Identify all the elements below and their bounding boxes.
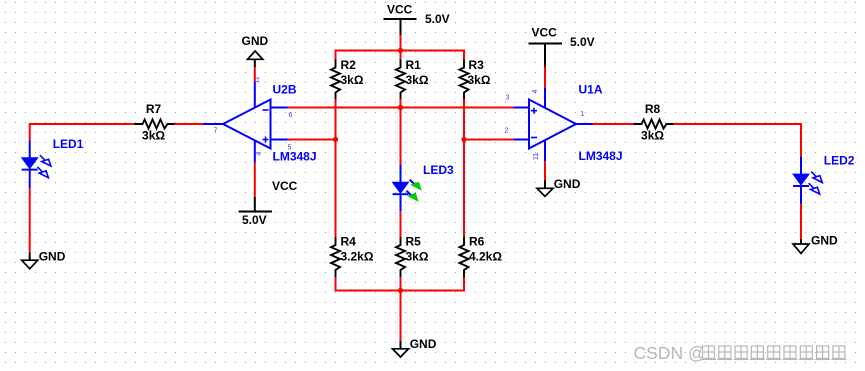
svg-text:R5: R5: [406, 235, 422, 249]
svg-text:3kΩ: 3kΩ: [142, 128, 165, 142]
svg-text:3kΩ: 3kΩ: [341, 73, 364, 87]
svg-text:GND: GND: [39, 249, 66, 263]
ground below U1A: [537, 177, 581, 197]
resistor R1 3k: [396, 58, 429, 100]
watermark CSDN: [634, 343, 848, 364]
wire: R3 top lead: [463, 50, 465, 61]
op-amp U2B LM348J (mirrored, output left): [203, 76, 317, 163]
wire: LED1 to GND: [29, 188, 31, 253]
svg-text:1: 1: [581, 111, 585, 118]
resistor R4 3.2k: [331, 235, 374, 278]
ground bottom center: [393, 337, 437, 357]
wire: R3 bottom lead down to node: [463, 99, 465, 140]
svg-text:3kΩ: 3kΩ: [406, 250, 429, 264]
junction dot: upper rail / R1: [398, 105, 403, 110]
svg-text:GND: GND: [410, 337, 437, 351]
wire: U2B pin 4 down to VCC bar: [254, 163, 256, 197]
resistor R2 3k: [331, 58, 364, 100]
resistor R6 4.2k: [460, 235, 503, 278]
svg-text:CSDN @: CSDN @: [634, 343, 706, 363]
resistor R5 3k: [396, 235, 429, 278]
wire: VCC to U1A pin 4: [544, 67, 546, 89]
svg-text:5.0V: 5.0V: [570, 35, 595, 49]
svg-text:U1A: U1A: [579, 83, 603, 97]
svg-text:4: 4: [532, 89, 539, 93]
op-amp U1A LM348J (output right): [505, 83, 623, 163]
svg-text:3: 3: [506, 95, 510, 102]
wire: bottom rail: [335, 290, 466, 292]
svg-text:7: 7: [214, 128, 218, 135]
ground below LED2: [793, 234, 838, 254]
resistor R7 3k (horizontal): [135, 102, 175, 143]
ground below LED1: [22, 249, 66, 269]
wire: node B down to R6: [463, 140, 465, 238]
wire: upper rail U2B(-) to U1A(+): [288, 107, 514, 109]
wire: R7 to LED1 corner: [30, 124, 135, 141]
svg-text:6: 6: [289, 112, 293, 119]
svg-text:R4: R4: [341, 235, 357, 249]
junction dot: bottom rail / GND: [398, 288, 403, 293]
svg-text:GND: GND: [811, 234, 838, 248]
wire: R8 to LED2 corner: [674, 124, 802, 157]
wire: U2B output to R7: [175, 123, 204, 125]
svg-text:GND: GND: [242, 34, 269, 48]
svg-text:3kΩ: 3kΩ: [406, 73, 429, 87]
svg-text:5.0V: 5.0V: [425, 12, 450, 26]
VCC supply top center (5.0V): [384, 3, 450, 36]
svg-text:2: 2: [505, 128, 509, 135]
wire: R4 bottom lead: [335, 277, 337, 292]
LED1 (blue): [22, 137, 84, 188]
svg-text:GND: GND: [554, 177, 581, 191]
wire: R2 bottom lead down to node: [335, 99, 337, 140]
svg-text:3.2kΩ: 3.2kΩ: [341, 250, 374, 264]
VCC supply above U1A (5.0V): [529, 26, 595, 67]
svg-text:3kΩ: 3kΩ: [468, 73, 491, 87]
wire: R2 top lead: [335, 50, 337, 61]
svg-text:R2: R2: [341, 58, 357, 72]
svg-text:R6: R6: [469, 235, 485, 249]
wire: bottom rail to GND: [400, 291, 402, 341]
wire: R1 top lead: [400, 51, 402, 61]
wire: LED2 to GND: [800, 204, 802, 239]
svg-text:R3: R3: [469, 58, 485, 72]
junction dot: node B (R3/R6): [461, 137, 466, 142]
svg-text:11: 11: [533, 153, 540, 160]
wire: U2B(+) to node A: [288, 139, 336, 141]
wire: LED3 to R5: [400, 211, 402, 237]
svg-text:5: 5: [288, 145, 292, 152]
svg-text:LM348J: LM348J: [273, 149, 317, 163]
wire: R1 bottom lead down to LED3: [400, 99, 402, 165]
wire: top rail horizontal R2-R1-R3: [335, 50, 466, 52]
svg-text:VCC: VCC: [387, 3, 413, 17]
wire: node A down to R4: [335, 140, 337, 238]
wire: U1A pin 11 down to GND: [544, 161, 546, 181]
svg-text:3kΩ: 3kΩ: [641, 128, 664, 142]
VCC supply below U2B (5.0V): [239, 179, 298, 227]
svg-text:R1: R1: [406, 58, 422, 72]
wire: VCC vertical drop to top rail: [400, 35, 402, 51]
resistor R3 3k: [460, 58, 491, 100]
svg-text:U2B: U2B: [273, 82, 297, 96]
wire: R5 bottom lead: [400, 277, 402, 292]
LED2 (blue): [793, 153, 855, 204]
svg-text:R8: R8: [645, 102, 661, 116]
svg-text:LED2: LED2: [824, 153, 855, 167]
wire: GND to U2B pin 11: [254, 67, 256, 82]
LED3 (blue, lit green arrows): [393, 163, 455, 211]
svg-text:LED3: LED3: [423, 163, 454, 177]
resistor R8 3k (horizontal): [634, 102, 674, 143]
svg-text:4.2kΩ: 4.2kΩ: [469, 250, 502, 264]
svg-text:5.0V: 5.0V: [242, 213, 267, 227]
wire: node B to U1A(-): [464, 139, 514, 141]
svg-text:LED1: LED1: [53, 137, 84, 151]
junction dot: node A (R2/R4): [333, 137, 338, 142]
svg-text:4: 4: [256, 151, 263, 155]
svg-text:LM348J: LM348J: [579, 149, 623, 163]
svg-text:R7: R7: [146, 102, 162, 116]
wire: R6 bottom lead: [463, 277, 465, 292]
junction dot: top rail / R1: [398, 48, 403, 53]
ground above U2B: [242, 34, 269, 67]
svg-text:VCC: VCC: [532, 26, 558, 40]
svg-text:VCC: VCC: [272, 179, 298, 193]
wire: U1A output to R8: [593, 123, 634, 125]
